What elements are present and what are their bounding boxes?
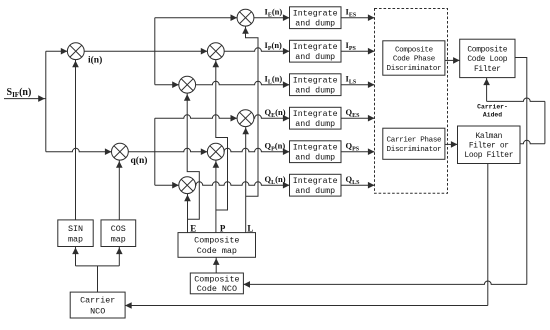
- block carrier phase discriminator: [383, 128, 445, 159]
- block composite code map: [178, 233, 256, 258]
- svg-text:L: L: [247, 223, 253, 233]
- wire L code to Q_E mixer: [245, 127, 247, 233]
- svg-text:Discriminator: Discriminator: [387, 65, 442, 73]
- mixer i (carrier I): [67, 43, 84, 60]
- svg-text:Composite: Composite: [194, 274, 239, 284]
- svg-text:Composite: Composite: [395, 46, 434, 54]
- wire carrier NCO to COS map: [118, 247, 120, 266]
- wire code loop filter output down: [515, 58, 527, 285]
- block SIN map: [58, 220, 93, 247]
- wire Q_LS to discriminator: [341, 184, 375, 186]
- svg-text:IES: IES: [346, 7, 357, 19]
- block composite code phase discriminator: [383, 41, 445, 75]
- svg-text:map: map: [68, 234, 83, 244]
- block composite code loop filter: [460, 39, 515, 77]
- svg-text:and dump: and dump: [295, 153, 335, 163]
- wire E code branch to I_L mixer (hops on crossing rows drawn in rows): [187, 93, 199, 219]
- wire input trunk vertical: [45, 51, 47, 152]
- svg-text:i(n): i(n): [88, 55, 102, 66]
- svg-text:Composite: Composite: [194, 236, 239, 246]
- integrate and dump block U3 (IL): [290, 74, 342, 96]
- wire I_L(n) to block (hops): [196, 81, 290, 84]
- wire q(n) to Q_P mixer (hop over E-code line): [128, 148, 207, 151]
- integrate and dump block U6 (QL): [290, 174, 342, 196]
- wire Q_P(n) to block (hops): [224, 148, 289, 151]
- wire trunk to q-mixer (hop over SIN line): [46, 148, 112, 151]
- svg-text:SIN: SIN: [68, 224, 83, 234]
- svg-text:Carrier: Carrier: [80, 296, 115, 306]
- wire carrier discriminator to kalman filter: [445, 143, 458, 145]
- svg-text:and dump: and dump: [295, 86, 335, 96]
- mixer q (carrier Q): [112, 143, 129, 160]
- wire E code to Q_L mixer: [187, 194, 189, 233]
- wire I_P(n) to block (hop over L branch): [224, 48, 289, 51]
- svg-text:NCO: NCO: [90, 306, 105, 316]
- integrate and dump block U5 (QP): [290, 141, 342, 163]
- wire carrier-aided line to code loop filter (hop over code line): [487, 98, 545, 101]
- svg-text:QPS: QPS: [346, 141, 360, 153]
- wire kalman filter to carrier NCO: [487, 164, 489, 306]
- svg-text:QLS: QLS: [346, 174, 361, 186]
- wire carrier NCO to SIN map: [75, 247, 77, 266]
- wire I_LS to discriminator: [341, 84, 375, 86]
- wire code discriminator to code loop filter: [445, 59, 460, 61]
- wire i(n) to I_P mixer: [84, 50, 207, 52]
- wire i branch to I_L mixer: [155, 84, 179, 86]
- svg-text:and dump: and dump: [295, 52, 335, 62]
- svg-text:ILS: ILS: [346, 74, 357, 86]
- svg-text:Carrier Phase: Carrier Phase: [387, 137, 442, 145]
- svg-text:Integrate: Integrate: [293, 10, 338, 19]
- svg-text:IPS: IPS: [346, 40, 357, 52]
- integrate and dump block U4 (QE): [290, 107, 342, 129]
- svg-text:Loop Filter: Loop Filter: [464, 151, 513, 160]
- svg-text:QE(n): QE(n): [265, 107, 286, 119]
- svg-text:Code Loop: Code Loop: [467, 55, 507, 64]
- svg-text:Integrate: Integrate: [293, 177, 338, 186]
- svg-text:Carrier-: Carrier-: [477, 104, 508, 111]
- block COS map: [101, 220, 136, 247]
- wire I_ES to discriminator: [341, 17, 375, 19]
- wire i branch to I_E mixer: [155, 17, 237, 19]
- mixer Q_P: [207, 143, 224, 160]
- svg-text:P: P: [220, 223, 226, 233]
- svg-text:Integrate: Integrate: [293, 144, 338, 153]
- wire I_PS to discriminator: [341, 50, 375, 52]
- svg-text:SIF(n): SIF(n): [7, 87, 32, 99]
- mixer I_P: [207, 43, 224, 60]
- wire code loop filter output to code NCO (hop over kalman drop): [243, 281, 526, 284]
- svg-text:Filter: Filter: [474, 65, 501, 74]
- wire q(n) branch vertical: [154, 118, 156, 185]
- svg-text:Code map: Code map: [197, 246, 237, 256]
- block kalman filter or loop filter: [458, 126, 521, 164]
- wire Q_L(n) to block (hops): [196, 182, 290, 185]
- svg-text:Code NCO: Code NCO: [197, 284, 237, 294]
- svg-text:q(n): q(n): [131, 155, 148, 166]
- mixer Q_E: [237, 110, 254, 127]
- svg-text:Integrate: Integrate: [293, 110, 338, 119]
- wire COS map to q mixer: [118, 160, 120, 220]
- svg-text:Kalman: Kalman: [475, 132, 502, 141]
- integrate and dump block U1 (IE): [290, 7, 342, 29]
- svg-text:Aided: Aided: [483, 112, 502, 119]
- wire Q_ES to discriminator: [341, 117, 375, 119]
- mixer I_E: [237, 9, 254, 26]
- block carrier NCO: [70, 292, 125, 318]
- svg-text:Composite: Composite: [467, 46, 507, 55]
- svg-text:and dump: and dump: [295, 186, 335, 196]
- wire trunk to i-mixer: [46, 50, 68, 52]
- dashed discriminator group box: [375, 9, 448, 194]
- svg-text:IP(n): IP(n): [265, 40, 283, 52]
- wire S_IF(n) input arrow: [4, 98, 46, 100]
- wire carrier NCO split: [76, 265, 120, 267]
- svg-text:QES: QES: [346, 107, 361, 119]
- svg-text:Filter or: Filter or: [469, 142, 509, 151]
- mixer I_L: [179, 76, 196, 93]
- wire SIN map to i mixer: [75, 60, 77, 220]
- svg-text:Integrate: Integrate: [293, 77, 338, 86]
- svg-text:map: map: [111, 234, 126, 244]
- wire L code branch to I_E mixer: [246, 26, 259, 196]
- svg-text:and dump: and dump: [295, 19, 335, 29]
- svg-text:QP(n): QP(n): [265, 141, 286, 153]
- wire Q_PS to discriminator: [341, 151, 375, 153]
- svg-text:Integrate: Integrate: [293, 43, 338, 52]
- svg-text:QL(n): QL(n): [265, 174, 286, 186]
- wire q branch to Q_E mixer (hops over E,P code lines): [155, 115, 237, 118]
- svg-text:and dump: and dump: [295, 119, 335, 129]
- svg-text:Discriminator: Discriminator: [387, 146, 442, 154]
- svg-text:E: E: [190, 223, 196, 233]
- wire P code branch to I_P mixer: [216, 60, 228, 210]
- svg-text:IL(n): IL(n): [265, 74, 283, 86]
- wire P code to Q_P mixer: [215, 160, 217, 233]
- wire i(n) branch vertical: [154, 18, 156, 85]
- integrate and dump block U2 (IP): [290, 40, 342, 62]
- wire Q_E(n) to block (hop): [254, 115, 290, 118]
- wire q branch to Q_L mixer: [155, 184, 179, 186]
- wire code NCO to code map: [215, 257, 217, 273]
- svg-text:Code Phase: Code Phase: [393, 56, 436, 64]
- wire I_E(n) to block: [254, 17, 290, 19]
- block composite code NCO: [190, 273, 243, 294]
- mixer Q_L: [179, 177, 196, 194]
- svg-text:IE(n): IE(n): [265, 7, 283, 19]
- wire kalman output right and up: [520, 140, 545, 143]
- svg-text:COS: COS: [111, 224, 126, 234]
